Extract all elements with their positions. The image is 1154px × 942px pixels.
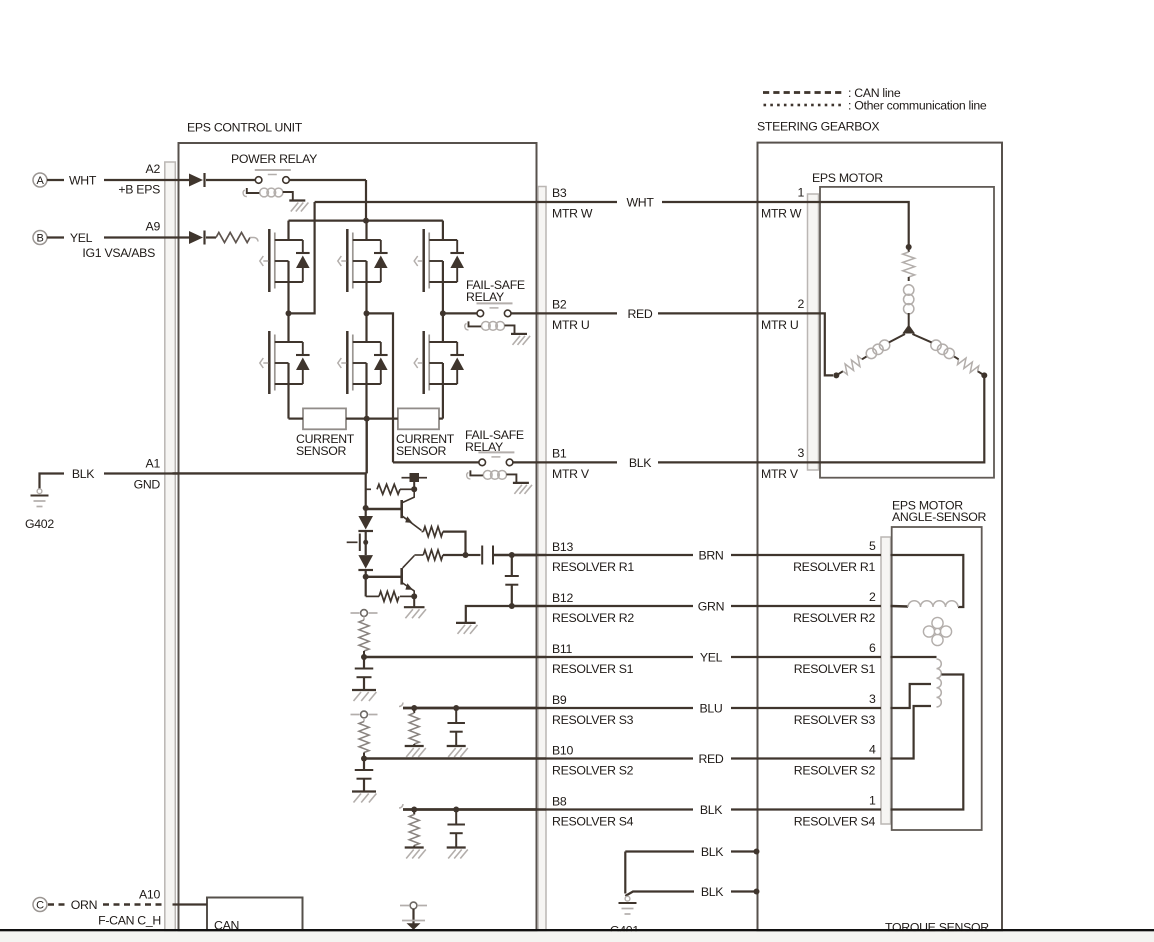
svg-text:RESOLVER R2: RESOLVER R2 [552, 611, 634, 625]
svg-text:MTR W: MTR W [552, 207, 593, 221]
svg-text:RESOLVER S4: RESOLVER S4 [552, 815, 634, 829]
svg-text:EPS CONTROL UNIT: EPS CONTROL UNIT [187, 121, 303, 135]
svg-text:BLK: BLK [701, 845, 724, 859]
svg-text:POWER RELAY: POWER RELAY [231, 152, 317, 166]
svg-text:YEL: YEL [700, 651, 723, 665]
svg-text:F-CAN C_H: F-CAN C_H [98, 914, 161, 928]
svg-text:MTR U: MTR U [552, 318, 589, 332]
svg-text:5: 5 [869, 539, 876, 553]
svg-text:MTR V: MTR V [552, 467, 590, 481]
svg-text:BLK: BLK [700, 803, 723, 817]
svg-text:B11: B11 [552, 642, 573, 656]
svg-text:2: 2 [869, 590, 876, 604]
svg-text:B3: B3 [552, 186, 567, 200]
svg-text:RESOLVER S1: RESOLVER S1 [552, 662, 634, 676]
svg-text:B: B [36, 233, 43, 245]
svg-text:B2: B2 [552, 297, 567, 311]
svg-text:MTR W: MTR W [761, 207, 802, 221]
svg-text:RESOLVER S2: RESOLVER S2 [552, 764, 634, 778]
svg-text:6: 6 [869, 641, 876, 655]
svg-text:B8: B8 [552, 795, 567, 809]
svg-text:2: 2 [797, 297, 804, 311]
svg-text:SENSOR: SENSOR [296, 444, 347, 458]
svg-text:A: A [36, 175, 44, 187]
svg-text:+B EPS: +B EPS [118, 183, 160, 197]
svg-text:3: 3 [869, 692, 876, 706]
svg-text:RESOLVER R2: RESOLVER R2 [793, 611, 875, 625]
svg-text:RESOLVER S3: RESOLVER S3 [552, 713, 634, 727]
svg-text:WHT: WHT [626, 196, 654, 210]
svg-text:4: 4 [869, 743, 876, 757]
svg-text:BLU: BLU [699, 702, 722, 716]
svg-text:B13: B13 [552, 540, 573, 554]
svg-text:STEERING GEARBOX: STEERING GEARBOX [757, 120, 879, 134]
svg-text:BRN: BRN [698, 549, 723, 563]
svg-text:GND: GND [134, 478, 161, 492]
svg-text:EPS MOTOR: EPS MOTOR [812, 171, 883, 185]
svg-text:G402: G402 [25, 517, 54, 531]
svg-text:ORN: ORN [71, 898, 97, 912]
svg-text:B9: B9 [552, 693, 567, 707]
svg-text:: Other communication line: : Other communication line [848, 99, 987, 113]
svg-text:1: 1 [869, 794, 876, 808]
svg-text:ANGLE-SENSOR: ANGLE-SENSOR [892, 510, 987, 524]
svg-text:RESOLVER R1: RESOLVER R1 [552, 560, 634, 574]
svg-text:IG1 VSA/ABS: IG1 VSA/ABS [82, 246, 155, 260]
svg-text:GRN: GRN [698, 600, 724, 614]
svg-text:MTR V: MTR V [761, 467, 799, 481]
svg-text:B10: B10 [552, 744, 573, 758]
svg-text:RED: RED [627, 307, 652, 321]
svg-text:B12: B12 [552, 591, 573, 605]
svg-text:RESOLVER S4: RESOLVER S4 [794, 815, 876, 829]
svg-text:WHT: WHT [69, 174, 97, 188]
svg-text:RESOLVER S1: RESOLVER S1 [794, 662, 876, 676]
svg-text:BLK: BLK [629, 456, 652, 470]
svg-text:SENSOR: SENSOR [396, 444, 447, 458]
svg-text:A10: A10 [139, 888, 160, 902]
svg-text:BLK: BLK [701, 885, 724, 899]
svg-text:RESOLVER S2: RESOLVER S2 [794, 764, 876, 778]
svg-text:B1: B1 [552, 446, 567, 460]
svg-text:RESOLVER S3: RESOLVER S3 [794, 713, 876, 727]
svg-text:C: C [36, 900, 44, 912]
svg-text:RESOLVER R1: RESOLVER R1 [793, 560, 875, 574]
svg-text:BLK: BLK [72, 467, 95, 481]
svg-text:MTR U: MTR U [761, 318, 798, 332]
svg-text:A9: A9 [146, 220, 161, 234]
svg-text:A2: A2 [146, 162, 161, 176]
svg-text:YEL: YEL [70, 231, 93, 245]
svg-text:RED: RED [698, 752, 723, 766]
svg-text:1: 1 [797, 186, 804, 200]
svg-text:A1: A1 [146, 457, 161, 471]
svg-text:RELAY: RELAY [466, 290, 504, 304]
svg-text:3: 3 [797, 446, 804, 460]
